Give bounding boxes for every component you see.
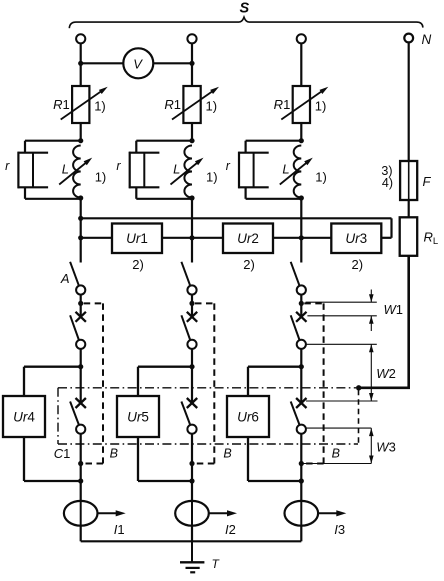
node junction Ur row phase 1 [78, 235, 83, 240]
wire N terminal to fuse F [408, 42, 410, 161]
link contact X upper phase 2 [187, 312, 197, 322]
wire junction to Ur return phase 2 [191, 464, 193, 482]
wire to Ur6 box phase 3 [248, 366, 301, 368]
svg-text:L: L [62, 162, 69, 177]
wire Ur row lead 1 [81, 237, 112, 239]
wire rL block to switch A phase 2 [191, 198, 193, 263]
svg-text:1): 1) [206, 170, 218, 185]
svg-text:R1: R1 [274, 97, 291, 112]
switch contact lower phase 3 [291, 402, 300, 425]
dimension ref line lower X [306, 400, 378, 402]
node junction bypass bottom phase 1 [78, 461, 83, 466]
wire rL block to switch A phase 1 [80, 198, 82, 263]
zone boundary C1 bottom dash-dot [58, 443, 358, 445]
svg-text:F: F [423, 174, 432, 189]
wire lower switch to junction phase 3 [300, 434, 302, 464]
svg-text:4): 4) [382, 176, 393, 190]
svg-text:B: B [332, 447, 340, 461]
supply terminal N [404, 34, 413, 43]
relay box Ur6 [227, 396, 269, 437]
arrow I1 [98, 512, 117, 514]
wire R1 to rL block phase 1 [80, 123, 82, 141]
wire to current source phase 1 [80, 481, 82, 501]
node junction phase1 V row [78, 61, 83, 66]
node junction bypass bottom phase 3 [299, 461, 304, 466]
inductor L phase 1 (variable) [73, 146, 81, 198]
wire Ur row lead 4 [273, 237, 301, 239]
wire rL block to switch A phase 3 [300, 198, 302, 263]
current source I1 phase 1 [64, 501, 98, 526]
relay box Ur1 [112, 224, 162, 254]
wire Ur row lead 3 [192, 237, 223, 239]
wire V left lead [81, 62, 124, 64]
node junction bottom of rL phase 1 [78, 195, 83, 200]
wire F to RL [408, 200, 410, 217]
svg-text:1): 1) [315, 170, 327, 185]
svg-text:W1: W1 [384, 302, 404, 317]
wire current source to earth bus phase 3 [300, 526, 302, 542]
relay box Ur3 [331, 224, 381, 254]
switch contact mid phase 1 [70, 315, 79, 340]
wire through measuring band phase 3 [300, 367, 302, 403]
relay box Ur5 [117, 396, 159, 437]
resistor r phase 3 [245, 141, 247, 153]
brace S over supply terminals [69, 17, 423, 28]
supply terminal phase 3 [297, 34, 306, 43]
wire to Ur junction phase 2 [191, 349, 193, 367]
wire Ur6 return phase 3 [247, 437, 249, 481]
wire V right lead [153, 62, 192, 64]
wire through measuring band phase 1 [80, 367, 82, 403]
svg-text:Ur6: Ur6 [237, 410, 259, 425]
svg-text:1): 1) [206, 99, 218, 114]
wire Ur row lead 2 [162, 237, 192, 239]
dimension ref line switch-A junction [306, 301, 377, 303]
wire to Ur5 box phase 2 [138, 366, 192, 368]
node junction Ur6 tap phase 3 [299, 364, 304, 369]
svg-text:2): 2) [352, 257, 364, 272]
switch A contact phase 2 [181, 262, 190, 286]
svg-text:A: A [60, 271, 70, 286]
inductor L phase 2 (variable) [184, 146, 192, 198]
node junction top of rL phase 2 [189, 138, 194, 143]
svg-text:W2: W2 [376, 366, 396, 381]
node junction Ur4 tap phase 1 [78, 364, 83, 369]
wire R1 to rL block phase 2 [191, 123, 193, 141]
svg-text:Ur5: Ur5 [127, 410, 149, 425]
svg-text:R1: R1 [53, 97, 70, 112]
node junction RL return on band [356, 385, 361, 390]
wire current source to earth bus phase 2 [191, 526, 193, 542]
svg-text:2): 2) [243, 257, 255, 272]
svg-text:Ur4: Ur4 [13, 410, 35, 425]
node junction Ur5 tap phase 2 [189, 364, 194, 369]
link contact X lower phase 1 [76, 398, 86, 408]
svg-text:Ur1: Ur1 [126, 231, 148, 246]
relay box Ur4 [3, 396, 45, 437]
wire current source to earth bus phase 1 [80, 526, 82, 542]
resistor r phase 1 [24, 141, 26, 153]
wire to Ur junction phase 1 [80, 349, 82, 367]
resistor R1 phase 2 (variable) [183, 86, 200, 123]
arrow I2 [209, 512, 228, 514]
svg-text:S: S [239, 1, 249, 17]
inductor L phase 3 (variable) [294, 146, 302, 198]
earth ground symbol T [180, 561, 204, 563]
switch A contact phase 3 [291, 262, 300, 286]
node junction Ur return phase 3 [299, 478, 304, 483]
node junction Ur row phase 3 [299, 235, 304, 240]
wire below switch A phase 1 [80, 295, 82, 317]
dashed bypass link phase 3 [304, 302, 323, 304]
resistor R1 phase 3 (variable) [293, 86, 310, 123]
node junction bypass top phase 1 [78, 301, 83, 306]
wire R1 to rL block phase 3 [300, 123, 302, 141]
switch contact mid phase 3 [291, 315, 300, 340]
wire to current source phase 2 [191, 481, 193, 501]
svg-text:2): 2) [132, 257, 144, 272]
wire junction to Ur return phase 1 [80, 464, 82, 482]
zone boundary C1 top dash-dot [58, 387, 356, 389]
node junction delta bus phase1 [78, 216, 83, 221]
dimension ref line bottom junction [301, 463, 371, 465]
wire below switch A phase 2 [191, 295, 193, 317]
switch contact mid phase 2 [181, 315, 190, 340]
wire to Ur junction phase 3 [300, 349, 302, 367]
svg-text:L: L [173, 162, 180, 177]
dimension W3 arrows [370, 428, 372, 463]
wire junction to Ur return phase 3 [300, 464, 302, 482]
link contact X lower phase 2 [187, 398, 197, 408]
wire Ur row lead 5 [301, 237, 331, 239]
svg-text:W3: W3 [376, 440, 396, 455]
dashed bypass link phase 2 [195, 302, 214, 304]
resistor R1 phase 1 (variable) [72, 86, 89, 123]
link contact X lower phase 3 [296, 398, 306, 408]
node junction bottom of rL phase 3 [299, 195, 304, 200]
switch A contact phase 1 [70, 262, 79, 286]
svg-text:1): 1) [95, 170, 107, 185]
wire Ur4 return phase 1 [23, 437, 25, 481]
node junction bypass top phase 3 [299, 301, 304, 306]
wire lower switch to junction phase 1 [80, 434, 82, 464]
fuse F [400, 161, 417, 200]
zone boundary right dashed [358, 390, 360, 444]
wire terminal to R1 phase 2 [191, 43, 193, 86]
wire to Ur4 box phase 1 [24, 366, 81, 368]
voltmeter V [123, 48, 153, 78]
svg-text:I3: I3 [334, 522, 345, 537]
node junction Ur row phase 2 [189, 235, 194, 240]
current source I3 phase 3 [285, 501, 319, 526]
resistor r phase 2 [135, 141, 137, 153]
resistor RL [400, 217, 418, 256]
svg-text:R1: R1 [164, 97, 181, 112]
wire earth stem [191, 541, 193, 562]
wire delta bus [81, 217, 392, 219]
node junction Ur return phase 2 [189, 478, 194, 483]
svg-text:V: V [133, 56, 143, 71]
dimension W1 arrows [370, 290, 372, 303]
svg-text:Ur2: Ur2 [237, 231, 259, 246]
wire terminal to R1 phase 3 [300, 43, 302, 86]
link contact X upper phase 3 [296, 312, 306, 322]
wire RL return [407, 256, 410, 388]
dimension ref line lower circle [306, 427, 371, 429]
wire below switch A phase 3 [300, 295, 302, 317]
switch contact lower phase 2 [181, 402, 190, 425]
svg-text:L: L [282, 162, 289, 177]
svg-text:1): 1) [94, 99, 106, 114]
dashed bypass link phase 1 [84, 302, 103, 304]
wire earth bus [81, 540, 302, 542]
svg-text:B: B [110, 447, 118, 461]
switch contact lower phase 1 [70, 402, 79, 425]
dimension W2 arrows [370, 344, 372, 401]
svg-text:C1: C1 [54, 446, 71, 461]
svg-text:1): 1) [315, 99, 327, 114]
dimension ref line mid circle [306, 343, 377, 345]
link contact X upper phase 1 [76, 312, 86, 322]
supply terminal phase 1 [76, 34, 85, 43]
wire Ur5 return phase 2 [137, 437, 139, 481]
svg-text:Ur3: Ur3 [345, 231, 367, 246]
svg-text:N: N [422, 32, 432, 47]
supply terminal phase 2 [187, 34, 196, 43]
zone boundary C1 left dash-dot [57, 388, 59, 444]
node junction Ur return phase 1 [78, 478, 83, 483]
current source I2 phase 2 [175, 501, 209, 526]
wire lower switch to junction phase 2 [191, 434, 193, 464]
wire through measuring band phase 2 [191, 367, 193, 403]
arrow I3 [318, 512, 337, 514]
dimension ref line upper X [307, 315, 376, 317]
node junction top of rL phase 3 [299, 138, 304, 143]
wire phase1 terminal to V row [80, 43, 82, 86]
svg-text:B: B [223, 447, 231, 461]
relay box Ur2 [223, 224, 273, 254]
node junction bypass top phase 2 [189, 301, 194, 306]
svg-text:I1: I1 [114, 522, 125, 537]
node junction top of rL phase 1 [78, 138, 83, 143]
svg-text:I2: I2 [225, 522, 236, 537]
wire to current source phase 3 [300, 481, 302, 501]
node junction phase2 V row [189, 61, 194, 66]
node junction bottom of rL phase 2 [189, 195, 194, 200]
node junction bypass bottom phase 2 [189, 461, 194, 466]
